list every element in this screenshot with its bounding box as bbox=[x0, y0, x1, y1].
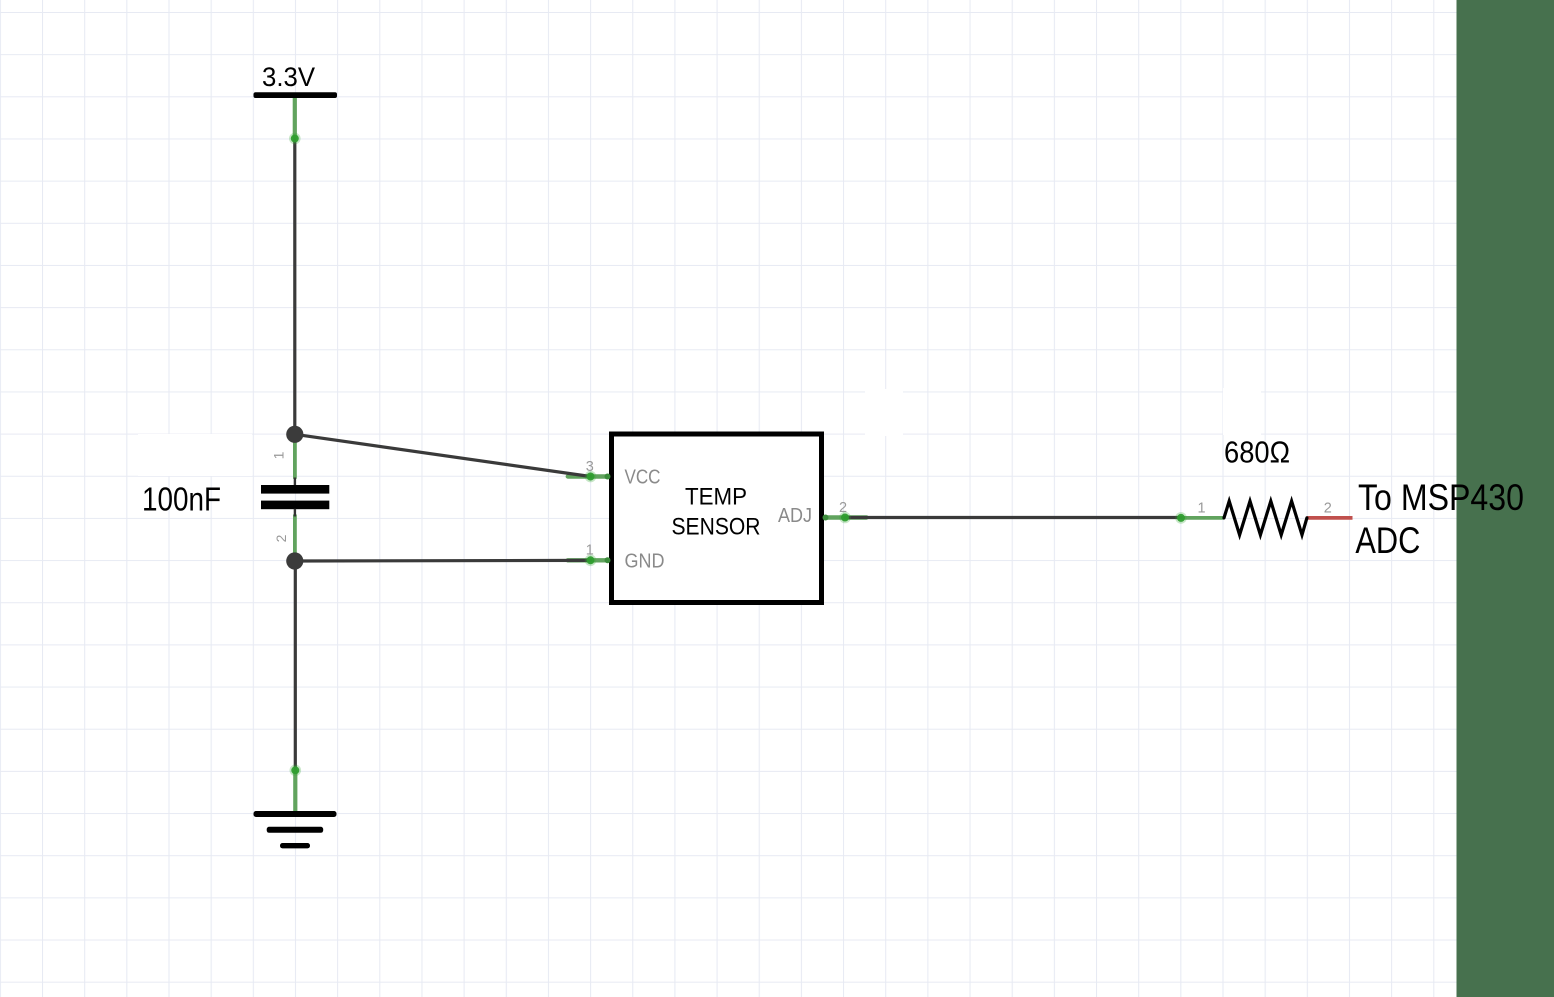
svg-text:To MSP430: To MSP430 bbox=[1358, 477, 1524, 518]
ground symbol bbox=[254, 811, 337, 848]
temp sensor pin 2 ADJ leg bbox=[824, 515, 867, 519]
green sidebar band bbox=[1457, 0, 1554, 997]
wire 3.3V rail to node A bbox=[293, 139, 296, 435]
svg-text:VCC: VCC bbox=[625, 467, 661, 489]
wire end dot at resistor pin 1 bbox=[1175, 512, 1187, 524]
svg-text:680Ω: 680Ω bbox=[1224, 434, 1290, 469]
wire ADJ pin to resistor R1 bbox=[845, 516, 1181, 519]
power symbol 3.3V bbox=[254, 62, 338, 98]
label background patch (capacitor label area) bbox=[138, 434, 252, 476]
svg-text:ADJ: ADJ bbox=[778, 505, 812, 527]
pin 3 terminal dot bbox=[605, 474, 611, 480]
svg-text:2: 2 bbox=[273, 534, 289, 542]
wire end dot at power pin bbox=[289, 133, 301, 145]
svg-text:3.3V: 3.3V bbox=[262, 62, 315, 92]
svg-text:1: 1 bbox=[271, 451, 287, 459]
svg-text:GND: GND bbox=[625, 550, 665, 572]
power pin leg bbox=[293, 95, 297, 139]
svg-text:1: 1 bbox=[1197, 501, 1205, 517]
svg-text:2: 2 bbox=[1324, 501, 1332, 517]
pin 1 terminal dot bbox=[605, 557, 611, 563]
pin 2 terminal dot bbox=[823, 515, 829, 521]
svg-text:SENSOR: SENSOR bbox=[672, 513, 761, 540]
pin 1 GND labels bbox=[586, 543, 665, 573]
wire end dot at ground pin bbox=[290, 765, 302, 777]
node B junction bbox=[286, 552, 303, 569]
pin 2 ADJ labels bbox=[778, 500, 847, 527]
wire node B to GND pin bbox=[295, 559, 591, 563]
annotation To MSP430 ADC bbox=[1355, 477, 1524, 561]
temp sensor pin 3 VCC leg bbox=[568, 474, 609, 478]
label background patch (temp sensor label area) bbox=[865, 389, 903, 436]
svg-text:TEMP: TEMP bbox=[685, 484, 747, 511]
svg-text:100nF: 100nF bbox=[142, 480, 221, 517]
wire node A to VCC pin bbox=[295, 434, 591, 476]
resistor pin 1 leg bbox=[1181, 516, 1224, 520]
wire node B to ground symbol bbox=[294, 561, 297, 770]
label background patch (resistor label area) bbox=[1223, 388, 1261, 435]
svg-text:ADC: ADC bbox=[1355, 520, 1420, 561]
resistor pin 2 leg (red) bbox=[1307, 516, 1353, 520]
ground pin leg bbox=[293, 770, 297, 813]
resistor R1 680 ohm bbox=[1197, 501, 1331, 535]
capacitor pin 2 leg bbox=[293, 515, 297, 559]
node A junction bbox=[286, 426, 303, 443]
capacitor pin 1 leg bbox=[293, 436, 297, 479]
temp sensor pin 1 GND leg bbox=[568, 558, 609, 562]
wire end dot at ADJ pin bbox=[839, 512, 851, 524]
wire end dot at GND pin bbox=[585, 555, 597, 567]
temp sensor U1 body bbox=[612, 434, 822, 603]
pin 3 VCC labels bbox=[586, 459, 661, 489]
capacitor C1 100nF bbox=[261, 478, 329, 517]
wire end dot at VCC pin bbox=[585, 471, 597, 483]
